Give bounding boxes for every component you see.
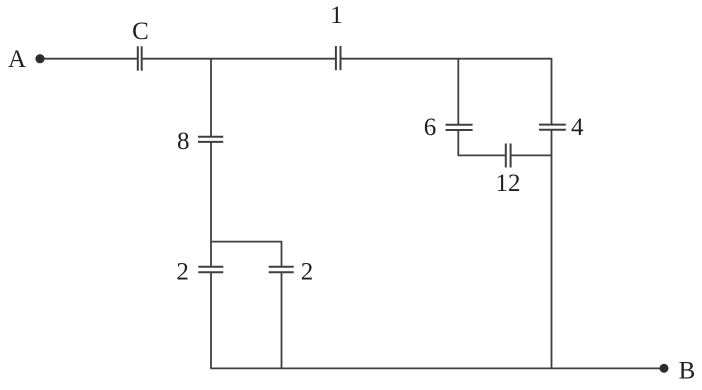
svg-text:B: B [679, 358, 696, 385]
svg-text:2: 2 [176, 258, 189, 285]
capacitor 8 [198, 137, 223, 142]
wire capacitor C to capacitor 1 (top node with junction at x=211) [143, 58, 336, 60]
wire vertical from top-right corner down to capacitor 4 [551, 58, 553, 124]
svg-text:2: 2 [301, 258, 314, 285]
node A terminal dot [35, 54, 44, 63]
capacitor 1 [336, 46, 341, 70]
wire capacitor 4 down through middle rail to bottom rail [551, 130, 553, 368]
wire middle rail left of capacitor 12 [458, 154, 506, 156]
capacitor 2 (left) [198, 267, 223, 273]
capacitor 12 [506, 144, 511, 168]
svg-text:4: 4 [571, 114, 584, 141]
wire right 2-capacitor down to bottom rail [281, 273, 283, 369]
svg-text:12: 12 [496, 170, 521, 197]
svg-text:A: A [8, 46, 26, 73]
wire bottom rail to node B [210, 367, 660, 369]
wire left 2-capacitor down to bottom rail [210, 273, 212, 369]
wire vertical from top wire down to capacitor 6 [457, 58, 459, 124]
wire vertical down to right 2-capacitor [281, 241, 283, 266]
svg-text:8: 8 [177, 128, 190, 155]
node B terminal dot [660, 364, 669, 373]
wire branch horizontal to right 2-capacitor [211, 241, 282, 243]
capacitor C [138, 46, 142, 70]
wire vertical from top node down to capacitor 8 [210, 58, 212, 136]
wire capacitor 8 down to left 2-capacitor [210, 142, 212, 266]
wire capacitor 6 down to middle rail [457, 131, 459, 156]
wire middle rail right of capacitor 12 [511, 154, 551, 156]
svg-text:6: 6 [424, 114, 437, 141]
capacitor 2 (right) [269, 267, 294, 273]
wire A to capacitor C [44, 58, 138, 60]
wire capacitor 1 to top-right corner [341, 58, 551, 60]
capacitor 6 [446, 125, 473, 130]
capacitor 4 [539, 125, 566, 130]
svg-text:C: C [132, 18, 149, 45]
svg-text:1: 1 [330, 2, 343, 29]
